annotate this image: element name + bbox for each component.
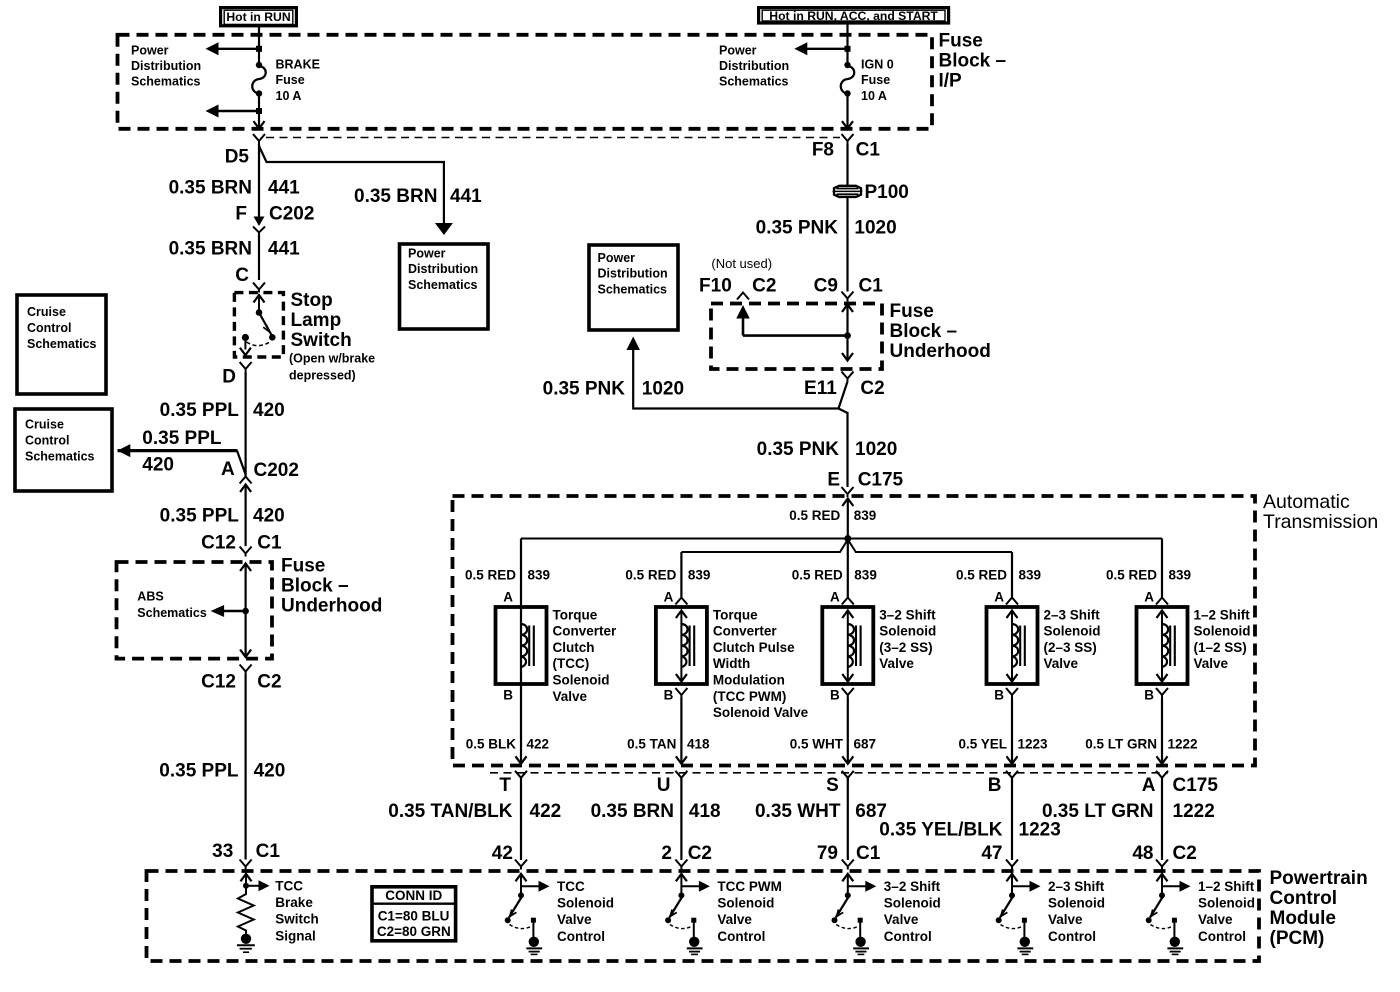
wire 0.5 RED 839 feed into transmission: [842, 499, 853, 507]
svg-text:839: 839: [1019, 568, 1042, 583]
svg-text:0.35 PPL: 0.35 PPL: [160, 506, 240, 527]
svg-text:C2=80 GRN: C2=80 GRN: [377, 924, 451, 939]
svg-text:Control: Control: [1048, 929, 1096, 944]
svg-text:Lamp: Lamp: [291, 310, 342, 331]
svg-text:C9: C9: [814, 276, 838, 297]
svg-text:0.35 BRN: 0.35 BRN: [354, 186, 437, 207]
wire below fuse: [846, 94, 848, 128]
switch travel arc: [670, 925, 692, 929]
svg-text:Hot in RUN: Hot in RUN: [226, 10, 290, 24]
svg-text:C12: C12: [201, 533, 236, 554]
svg-text:(TCC): (TCC): [553, 656, 590, 671]
TCC PWM solenoid valve control driver in PCM: [676, 874, 687, 882]
wire 0.35 PPL 420 (C12 to PCM pin 33): [245, 675, 247, 860]
arrow exiting fuse block at F8: [842, 121, 853, 129]
svg-text:0.5 RED: 0.5 RED: [956, 568, 1007, 583]
connector fork C12/C2 below fuse block: [240, 665, 252, 675]
wire 0.35 LT GRN 1222: [1161, 778, 1163, 861]
svg-text:(PCM): (PCM): [1270, 928, 1325, 949]
switch pivot: [845, 892, 851, 898]
switch pivot: [1159, 892, 1165, 898]
svg-text:A: A: [830, 590, 840, 605]
switch moving contact: [1146, 917, 1152, 923]
svg-text:Power: Power: [408, 246, 446, 260]
svg-text:Control: Control: [1198, 929, 1246, 944]
wire from Hot in RUN box to Fuse Block I/P: [258, 26, 260, 35]
svg-text:C1: C1: [859, 276, 884, 297]
solenoid 2-3 Shift box: [987, 607, 1038, 684]
svg-text:E11: E11: [804, 378, 837, 399]
svg-text:B: B: [830, 688, 840, 703]
svg-text:0.5 YEL: 0.5 YEL: [958, 737, 1007, 752]
svg-text:0.35 PNK: 0.35 PNK: [756, 218, 839, 239]
svg-text:D: D: [222, 367, 236, 388]
svg-text:TCC PWM: TCC PWM: [717, 879, 782, 894]
svg-text:839: 839: [854, 568, 877, 583]
svg-text:Valve: Valve: [1198, 912, 1233, 927]
svg-text:Block –: Block –: [939, 50, 1007, 71]
svg-text:Switch: Switch: [291, 330, 352, 351]
svg-text:0.5 LT GRN: 0.5 LT GRN: [1085, 737, 1157, 752]
wire 0.35 BRN 441 (D5 to C202): [258, 144, 260, 219]
wire from B of TCC PWM: [680, 698, 682, 764]
svg-text:Solenoid: Solenoid: [1048, 896, 1105, 911]
svg-text:10 A: 10 A: [861, 89, 887, 103]
solenoid 2-3 Shift coil: [1012, 624, 1018, 667]
junction: [845, 46, 851, 52]
branch wire from E11 to power distribution schematics: [633, 382, 847, 414]
svg-text:0.35 BRN: 0.35 BRN: [169, 178, 252, 199]
2–3 Shift solenoid valve control driver in PCM: [1007, 874, 1018, 882]
switch fixed contact: [858, 918, 863, 923]
ABS fuse block underhood dashed box: [117, 562, 273, 659]
svg-text:1020: 1020: [854, 218, 896, 239]
ground at TCC brake signal: [241, 934, 251, 944]
wire below fuse: [258, 94, 260, 128]
svg-text:B: B: [994, 688, 1004, 703]
switch moving contact: [505, 917, 511, 923]
svg-text:1–2 Shift: 1–2 Shift: [1198, 879, 1255, 894]
arrows inside TCC PWM solenoid: [676, 611, 687, 619]
svg-text:Distribution: Distribution: [408, 262, 478, 276]
svg-text:3–2 Shift: 3–2 Shift: [884, 879, 941, 894]
svg-text:Schematics: Schematics: [25, 450, 95, 464]
svg-text:Block –: Block –: [281, 576, 349, 597]
svg-text:CONN ID: CONN ID: [385, 888, 442, 903]
label box: Hot in RUN, ACC, and START: [759, 8, 949, 23]
wire: arrow to power distribution (lower left): [216, 110, 259, 112]
wire: IGN 0 fuse feed: [846, 35, 848, 65]
arrow exiting transmission at TCC: [516, 756, 527, 764]
svg-text:687: 687: [854, 737, 877, 752]
svg-text:441: 441: [450, 186, 482, 207]
svg-text:E: E: [827, 470, 840, 491]
switch arm: [509, 897, 522, 918]
fuse IGN 0 10A: [844, 62, 850, 68]
svg-text:Schematics: Schematics: [408, 278, 478, 292]
connector line C1 between D5 and F8 (thin dashed): [266, 137, 840, 139]
fuse BRAKE 10A: [256, 62, 262, 68]
svg-text:A: A: [1142, 775, 1156, 796]
svg-text:Underhood: Underhood: [281, 596, 382, 617]
svg-text:P100: P100: [865, 182, 909, 203]
wire 0.5 RED 839 drop to solenoid 1-2 Shift: [1161, 539, 1163, 598]
svg-text:0.5 WHT: 0.5 WHT: [790, 737, 844, 752]
svg-text:Clutch Pulse: Clutch Pulse: [713, 640, 795, 655]
svg-text:2–3 Shift: 2–3 Shift: [1048, 879, 1105, 894]
svg-text:Signal: Signal: [275, 928, 316, 943]
wire: arrow to power distribution (upper left): [216, 48, 259, 50]
switch fixed contact: [1172, 918, 1177, 923]
svg-text:Brake: Brake: [275, 895, 313, 910]
svg-text:3–2 Shift: 3–2 Shift: [879, 607, 936, 622]
svg-text:Converter: Converter: [713, 624, 778, 639]
wire 0.5 RED 839 drop to solenoid TCC PWM: [680, 552, 682, 597]
svg-text:Control: Control: [717, 929, 765, 944]
svg-text:0.35 WHT: 0.35 WHT: [755, 801, 841, 822]
svg-text:B: B: [988, 775, 1002, 796]
wire through TCC solenoid: [520, 607, 522, 684]
solenoid TCC PWM coil: [681, 624, 687, 667]
switch arm: [669, 897, 682, 918]
wire 0.5 RED 839 drop to solenoid TCC: [520, 539, 522, 608]
svg-text:C202: C202: [254, 460, 299, 481]
svg-text:0.5 RED: 0.5 RED: [465, 568, 516, 583]
svg-text:C2: C2: [752, 276, 776, 297]
svg-text:Cruise: Cruise: [27, 305, 66, 319]
svg-text:0.35 PNK: 0.35 PNK: [757, 439, 840, 460]
svg-text:Control: Control: [884, 929, 932, 944]
power distribution schematics box (left): [400, 244, 489, 329]
svg-text:Valve: Valve: [879, 656, 914, 671]
resistor TCC brake switch signal: [238, 890, 254, 934]
svg-text:Solenoid Valve: Solenoid Valve: [713, 705, 809, 720]
svg-text:420: 420: [142, 455, 174, 476]
switch travel arc: [1151, 925, 1173, 929]
svg-text:F8: F8: [812, 140, 834, 161]
arrows inside 1-2 Shift solenoid: [1157, 611, 1168, 619]
svg-text:C175: C175: [858, 470, 904, 491]
connector fork at PCM pin 33: [240, 860, 252, 870]
svg-text:441: 441: [268, 239, 300, 260]
svg-text:C1: C1: [856, 140, 881, 161]
junction in fuse block: [844, 332, 851, 339]
wire 0.35 PPL 420 (D to A): [245, 372, 247, 477]
ground at 3–2 Shift driver: [855, 937, 865, 947]
svg-text:Valve: Valve: [553, 689, 588, 704]
solenoid 1-2 Shift box: [1137, 607, 1188, 684]
arrow exiting transmission at 2-3 Shift: [1007, 756, 1018, 764]
switch moving contact: [665, 917, 671, 923]
branch arrow: [681, 885, 703, 887]
switch pivot: [518, 892, 524, 898]
svg-text:Torque: Torque: [713, 607, 758, 622]
svg-text:C2: C2: [1173, 843, 1197, 864]
branch wire to power distribution schematics box: [259, 146, 444, 223]
wire through fuse block underhood: [842, 305, 853, 313]
svg-text:C1=80 BLU: C1=80 BLU: [378, 908, 450, 923]
bus junction: [844, 535, 851, 542]
svg-text:Converter: Converter: [553, 624, 618, 639]
junction and arrow to ABS schematics: [242, 608, 249, 615]
svg-text:F10: F10: [699, 276, 732, 297]
svg-text:420: 420: [253, 400, 285, 421]
wire through ABS fuse block: [240, 564, 251, 572]
arrow exiting transmission at 1-2 Shift: [1157, 756, 1168, 764]
ground at TCC driver: [529, 937, 539, 947]
cruise control schematics box 2: [15, 409, 112, 491]
svg-text:1222: 1222: [1168, 737, 1198, 752]
connector fork at PCM pin for TCC: [515, 860, 527, 870]
svg-text:C175: C175: [1173, 775, 1219, 796]
branch arrow: [1012, 885, 1034, 887]
svg-text:Schematics: Schematics: [131, 75, 201, 89]
ground at 1–2 Shift driver: [1170, 937, 1180, 947]
svg-text:Valve: Valve: [884, 912, 919, 927]
solenoid TCC PWM box: [656, 607, 707, 684]
connector fork terminal T of C175: [515, 771, 527, 781]
stop lamp switch dashed box: [234, 293, 283, 357]
svg-text:33: 33: [212, 841, 233, 862]
svg-text:1222: 1222: [1173, 801, 1215, 822]
wire: arrow to power distribution: [805, 48, 848, 50]
svg-text:(Open w/brake: (Open w/brake: [289, 352, 375, 366]
svg-text:Underhood: Underhood: [890, 341, 991, 362]
svg-text:C1: C1: [257, 533, 282, 554]
svg-text:0.5 RED: 0.5 RED: [792, 568, 843, 583]
svg-text:418: 418: [687, 737, 710, 752]
svg-text:Transmission: Transmission: [1263, 511, 1378, 533]
svg-text:1–2 Shift: 1–2 Shift: [1194, 607, 1251, 622]
svg-text:Power: Power: [131, 43, 169, 57]
switch arm: [1000, 897, 1013, 918]
automatic transmission dashed box: [453, 496, 1256, 766]
svg-text:Fuse: Fuse: [939, 30, 983, 51]
wire 0.35 PPL 420 (A to C12): [245, 486, 247, 546]
svg-text:I/P: I/P: [939, 70, 963, 91]
wire 0.35 TAN/BLK 422: [520, 778, 522, 861]
svg-text:0.35 PPL: 0.35 PPL: [159, 761, 239, 782]
svg-text:(2–3 SS): (2–3 SS): [1044, 640, 1097, 655]
solenoid TCC box: [496, 607, 547, 684]
1–2 Shift solenoid valve control driver in PCM: [1157, 874, 1168, 882]
switch fixed contact: [691, 918, 696, 923]
switch pivot: [1009, 892, 1015, 898]
svg-text:0.5 BLK: 0.5 BLK: [466, 737, 517, 752]
wire 0.35 BRN 418: [680, 778, 682, 861]
svg-text:(Not used): (Not used): [711, 256, 772, 271]
stop lamp switch symbol: [254, 295, 265, 303]
connector C175 line (thin dashed): [490, 772, 1168, 774]
label box: Hot in RUN: [221, 8, 297, 26]
svg-text:Modulation: Modulation: [713, 673, 785, 688]
svg-text:10 A: 10 A: [276, 89, 302, 103]
svg-text:Solenoid: Solenoid: [1198, 896, 1255, 911]
ground at 2–3 Shift driver: [1020, 937, 1030, 947]
switch travel arc: [1001, 925, 1023, 929]
svg-text:839: 839: [688, 568, 711, 583]
wire 0.35 PNK 1020 (E11 to C175-E): [846, 412, 848, 487]
svg-text:1223: 1223: [1018, 737, 1049, 752]
svg-text:Schematics: Schematics: [719, 75, 789, 89]
svg-text:C: C: [235, 265, 249, 286]
connector fork at PCM pin for 3–2 Shift: [842, 860, 854, 870]
svg-text:Width: Width: [713, 656, 750, 671]
svg-text:Schematics: Schematics: [137, 606, 207, 620]
svg-text:(3–2 SS): (3–2 SS): [879, 640, 932, 655]
solenoid 3-2 Shift box: [822, 607, 873, 684]
svg-text:Distribution: Distribution: [598, 267, 668, 281]
solenoid 3-2 Shift coil: [848, 624, 854, 667]
svg-text:Control: Control: [1270, 888, 1338, 909]
conn id table: [372, 887, 456, 941]
arrows inside 3-2 Shift solenoid: [842, 611, 853, 619]
switch pivot: [678, 892, 684, 898]
svg-text:C2: C2: [688, 843, 712, 864]
svg-text:Distribution: Distribution: [719, 59, 789, 73]
svg-text:0.5 RED: 0.5 RED: [1106, 568, 1157, 583]
svg-text:0.35 BRN: 0.35 BRN: [591, 801, 674, 822]
svg-text:Solenoid: Solenoid: [879, 624, 936, 639]
connector fork at PCM pin for 1–2 Shift: [1156, 860, 1168, 870]
svg-text:Solenoid: Solenoid: [717, 896, 774, 911]
svg-text:Switch: Switch: [275, 912, 319, 927]
svg-text:Block –: Block –: [890, 321, 958, 342]
wire from B of 2-3 Shift: [1011, 698, 1013, 764]
svg-text:0.5 RED: 0.5 RED: [625, 568, 676, 583]
svg-text:S: S: [826, 775, 839, 796]
svg-text:Solenoid: Solenoid: [1044, 624, 1101, 639]
svg-text:Control: Control: [27, 321, 71, 335]
svg-text:0.5 RED: 0.5 RED: [789, 508, 840, 523]
svg-text:C202: C202: [269, 204, 314, 225]
svg-text:Schematics: Schematics: [27, 337, 97, 351]
svg-text:839: 839: [854, 508, 877, 523]
branch arrow: [1162, 885, 1184, 887]
wire: BRAKE fuse feed: [258, 35, 260, 65]
svg-text:Solenoid: Solenoid: [1194, 624, 1251, 639]
svg-text:A: A: [664, 590, 674, 605]
wire 0.35 YEL/BLK 1223: [1011, 778, 1013, 861]
svg-text:A: A: [1144, 590, 1154, 605]
powertrain control module dashed box: [147, 871, 1260, 961]
svg-text:2–3 Shift: 2–3 Shift: [1044, 607, 1101, 622]
svg-text:0.35 LT GRN: 0.35 LT GRN: [1042, 801, 1154, 822]
svg-text:Solenoid: Solenoid: [553, 673, 610, 688]
svg-text:79: 79: [817, 843, 838, 864]
switch fixed contact: [531, 918, 536, 923]
connector fork terminal S of C175: [842, 771, 854, 781]
TCC solenoid valve control driver in PCM: [516, 874, 527, 882]
wire F8 to P100: [846, 144, 848, 186]
svg-text:Stop: Stop: [291, 290, 333, 311]
junction: [256, 108, 262, 114]
svg-text:Module: Module: [1270, 908, 1337, 929]
svg-text:441: 441: [268, 178, 300, 199]
arrows inside 2-3 Shift solenoid: [1007, 611, 1018, 619]
TCC brake switch signal input (pin 33): [241, 874, 252, 882]
svg-text:0.35 YEL/BLK: 0.35 YEL/BLK: [879, 820, 1002, 841]
svg-text:Control: Control: [557, 929, 605, 944]
svg-text:depressed): depressed): [289, 369, 356, 383]
svg-text:422: 422: [527, 737, 550, 752]
svg-text:TCC: TCC: [557, 879, 585, 894]
arrow exiting transmission at 3-2 Shift: [842, 756, 853, 764]
fuse block underhood dashed box (right): [711, 304, 882, 370]
svg-text:U: U: [657, 775, 671, 796]
connector fork D below stop lamp switch: [240, 362, 252, 372]
svg-text:TCC: TCC: [275, 879, 303, 894]
switch fixed contact: [1022, 918, 1027, 923]
svg-text:418: 418: [689, 801, 721, 822]
arrow exiting transmission at TCC PWM: [676, 756, 687, 764]
cruise control schematics box 1: [17, 295, 106, 394]
wire 0.5 RED 839 drop to solenoid 2-3 Shift: [1011, 552, 1013, 597]
wire 0.5 RED 839 drop to solenoid 3-2 Shift: [847, 539, 849, 598]
svg-text:Valve: Valve: [717, 912, 752, 927]
svg-text:422: 422: [530, 801, 562, 822]
branch arrow: [521, 885, 543, 887]
svg-text:839: 839: [1169, 568, 1192, 583]
svg-text:Schematics: Schematics: [598, 282, 668, 296]
svg-text:47: 47: [981, 843, 1002, 864]
svg-text:C2: C2: [257, 672, 281, 693]
svg-text:B: B: [503, 688, 513, 703]
svg-text:Power: Power: [719, 43, 757, 57]
svg-text:Fuse: Fuse: [276, 73, 305, 87]
wire from B of 1-2 Shift: [1161, 698, 1163, 764]
svg-text:Cruise: Cruise: [25, 418, 64, 432]
svg-text:1020: 1020: [855, 439, 897, 460]
svg-text:A: A: [503, 590, 513, 605]
connector fork E11: [842, 372, 854, 382]
svg-text:Fuse: Fuse: [890, 301, 934, 322]
svg-text:(1–2 SS): (1–2 SS): [1194, 640, 1247, 655]
svg-text:Automatic: Automatic: [1263, 491, 1350, 513]
connector fork F8: [842, 134, 854, 144]
svg-text:Fuse: Fuse: [861, 73, 890, 87]
svg-text:(TCC PWM): (TCC PWM): [713, 689, 786, 704]
arrow TCC brake switch signal: [246, 885, 261, 887]
svg-text:0.35 PPL: 0.35 PPL: [160, 400, 240, 421]
solenoid TCC coil: [521, 624, 527, 667]
svg-text:Solenoid: Solenoid: [884, 896, 941, 911]
svg-text:C2: C2: [860, 378, 884, 399]
connector fork terminal B of C175: [1006, 771, 1018, 781]
svg-text:Hot in RUN, ACC, and START: Hot in RUN, ACC, and START: [769, 9, 938, 23]
branch arrow: [848, 885, 870, 887]
svg-text:1223: 1223: [1019, 820, 1061, 841]
junction: [256, 46, 262, 52]
svg-text:A: A: [221, 459, 235, 480]
svg-text:0.35 TAN/BLK: 0.35 TAN/BLK: [388, 801, 513, 822]
svg-text:IGN 0: IGN 0: [861, 58, 894, 72]
switch moving contact: [832, 917, 838, 923]
connector fork at PCM pin for 2–3 Shift: [1006, 860, 1018, 870]
solenoid 1-2 Shift coil: [1162, 624, 1168, 667]
svg-text:D5: D5: [225, 147, 250, 168]
switch travel arc: [836, 925, 858, 929]
svg-text:Fuse: Fuse: [281, 556, 325, 577]
svg-text:Torque: Torque: [553, 607, 598, 622]
switch arm: [836, 897, 849, 918]
branch wire to F10 terminal: [743, 334, 848, 337]
svg-text:Valve: Valve: [1194, 656, 1229, 671]
svg-text:B: B: [664, 688, 674, 703]
svg-text:Valve: Valve: [1048, 912, 1083, 927]
svg-text:T: T: [499, 775, 511, 796]
wire from B of 3-2 Shift: [847, 698, 849, 764]
